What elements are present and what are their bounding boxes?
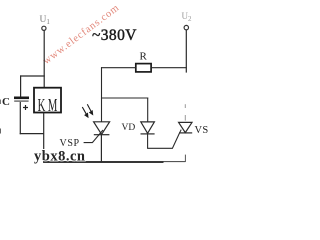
resistor R bbox=[136, 64, 151, 72]
wire KM bottom bbox=[43, 113, 45, 163]
svg-text:ybx8.cn: ybx8.cn bbox=[34, 149, 85, 165]
terminal U2 bbox=[184, 25, 188, 29]
photothyristor VSP bbox=[94, 122, 110, 162]
VSP gate pointer bbox=[84, 130, 103, 143]
wire top-left horizontal bbox=[20, 75, 45, 77]
edge artifacts bbox=[0, 100, 1, 105]
VS gate overshoot bbox=[180, 130, 182, 133]
svg-text:VS: VS bbox=[195, 125, 209, 136]
svg-text:~380V: ~380V bbox=[92, 27, 137, 44]
svg-text:C: C bbox=[2, 96, 10, 108]
wire left rail upper bbox=[20, 75, 22, 96]
contactor coil KM bbox=[34, 88, 61, 113]
wire left rail lower bbox=[19, 102, 21, 134]
wire drop from R to node bbox=[101, 67, 103, 98]
terminal U1 bbox=[42, 26, 46, 30]
light arrows into VSP bbox=[82, 104, 92, 117]
thyristor VS bbox=[179, 122, 193, 132]
wire stub to VS cathode bbox=[184, 155, 186, 162]
capacitor C plates bbox=[14, 97, 29, 100]
wire U2 vertical bbox=[185, 30, 187, 73]
wire VSP anode bbox=[101, 98, 103, 122]
svg-text:R: R bbox=[140, 51, 148, 63]
wire VD to VS gate bbox=[147, 133, 180, 149]
diode VD bbox=[141, 122, 155, 134]
wire U1 vertical bbox=[43, 31, 45, 88]
wire R right bbox=[151, 67, 187, 69]
wire bottom-left join bbox=[20, 133, 44, 135]
wire VD cathode bbox=[147, 134, 149, 148]
wire R left bbox=[101, 67, 136, 69]
wire horizontal node to VD bbox=[101, 97, 148, 99]
svg-text:VD: VD bbox=[122, 123, 136, 133]
wire bottom rail left bbox=[43, 161, 163, 163]
wire VD anode drop bbox=[147, 98, 149, 123]
svg-text:K M: K M bbox=[38, 95, 58, 115]
wire bottom rail right bbox=[164, 161, 186, 163]
plus sign bbox=[23, 105, 28, 110]
wire VS anode (faint) bbox=[184, 104, 186, 108]
